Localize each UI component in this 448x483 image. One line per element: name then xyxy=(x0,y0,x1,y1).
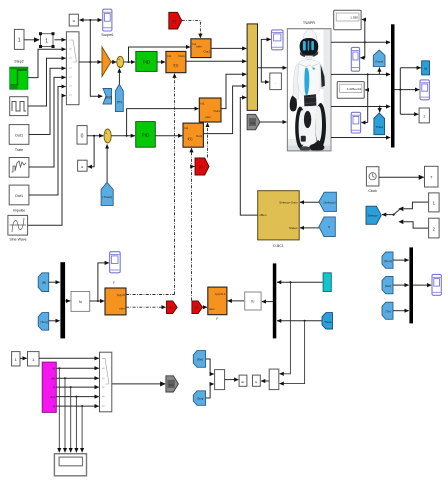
wire sum1 to PID1 with branch up xyxy=(124,47,191,63)
wire bar4 to scope xyxy=(413,284,431,286)
robot eyes xyxy=(303,41,306,51)
from tag Xpos (far right cluster) xyxy=(382,252,393,268)
mux bar 2 (black) xyxy=(273,263,277,338)
svg-text:f(1): f(1) xyxy=(188,137,193,141)
svg-text:Torq: Torq xyxy=(168,383,174,387)
wire PID2 to subsystem2a xyxy=(155,135,182,137)
svg-text:Out1: Out1 xyxy=(196,134,203,138)
from tag X (red) xyxy=(192,301,203,314)
wire subsystem1a to yellow mux input2 xyxy=(186,60,246,62)
wire magenta out1 to selector with drop xyxy=(56,367,98,452)
robot visor head xyxy=(300,38,319,56)
robot chest blade (blue) xyxy=(304,68,309,96)
svg-text:+: + xyxy=(105,132,107,136)
wire Theta to bar4 xyxy=(393,310,409,312)
svg-text:P: P xyxy=(53,386,55,390)
svg-text:Theta: Theta xyxy=(324,320,332,324)
constant block 1 xyxy=(14,29,24,49)
mux bar 4 (black) xyxy=(409,247,413,323)
svg-text:[Selector]: [Selector] xyxy=(324,200,336,204)
wire Xpos to bar4 xyxy=(393,259,409,261)
wire gray Torque to robot input2 xyxy=(260,121,287,123)
dashdot long vertical to subsystem1a bottom xyxy=(174,74,176,295)
manual switch xyxy=(393,207,404,225)
wire gain to sum1 xyxy=(111,61,116,63)
svg-text:Out1: Out1 xyxy=(178,54,185,58)
wire bottom 1a to 1b xyxy=(20,357,27,359)
svg-text:[Ref]: [Ref] xyxy=(197,358,203,362)
fcn block 1 xyxy=(71,292,90,312)
svg-text:-: - xyxy=(106,139,107,143)
subsystem block f(1) row1 xyxy=(166,51,186,72)
from tag Torque (gray, into robot) xyxy=(247,114,260,130)
wire builder to mux input5 xyxy=(29,77,66,167)
sum junction 1 xyxy=(117,56,124,68)
robot helmet xyxy=(303,29,318,43)
wire constant 2 to switch contact b xyxy=(404,222,429,228)
from tag Theta xyxy=(101,182,113,205)
robot rear tire (dark arc) xyxy=(315,103,326,148)
wire robot output2 to right demux xyxy=(331,73,390,122)
from tag Theta (far right cluster) xyxy=(382,302,393,319)
dashdot wire subsystem F left top output xyxy=(126,294,175,296)
svg-text:f(u)=0: f(u)=0 xyxy=(117,293,125,297)
svg-text:[Torq]: [Torq] xyxy=(197,397,204,401)
display dot block xyxy=(270,73,282,90)
constant block switch-1 xyxy=(429,193,440,212)
goto tag Ref xyxy=(103,89,112,105)
svg-text:Out1: Out1 xyxy=(203,50,210,54)
gain triangle block xyxy=(102,47,111,77)
yellow mux bar (5 inputs) xyxy=(247,24,257,111)
svg-text:-: - xyxy=(119,64,120,68)
unit delay block 1/z xyxy=(69,14,78,26)
svg-text:Selector: Selector xyxy=(368,214,378,218)
svg-text:1: 1 xyxy=(18,38,21,44)
wire sum2 to PID2 with branch up to subsystem2b xyxy=(111,109,198,137)
robot right arm (dark) xyxy=(319,63,325,90)
svg-text:[Y]: [Y] xyxy=(169,306,173,310)
wire Theta to sum2 bottom xyxy=(106,145,108,183)
svg-text:F: F xyxy=(216,317,218,321)
svg-text:[Ref]: [Ref] xyxy=(105,95,112,99)
goto tag Selector (blue) xyxy=(366,206,381,224)
wire branch to 1/z and Scope6 xyxy=(80,19,102,63)
svg-text:In1: In1 xyxy=(200,102,205,106)
cyan constant block xyxy=(323,273,331,292)
robot shin patch xyxy=(301,136,306,142)
wire subsystem1b to yellow mux input1 xyxy=(211,47,246,49)
constant block 0 xyxy=(77,126,87,145)
svg-text:u: u xyxy=(81,165,83,169)
wire subsystem2b to yellow mux input3 xyxy=(221,74,246,108)
robot shoulder seams xyxy=(299,64,318,67)
PID controller 2 xyxy=(136,122,156,148)
wire robot output3 to right demux xyxy=(331,106,390,113)
goto tag X1 (red) xyxy=(169,12,182,29)
clock block xyxy=(366,167,379,193)
wire Step2 to mux input2 xyxy=(28,49,66,77)
wire Xpos stub to wire2 xyxy=(378,68,380,75)
svg-text:1: 1 xyxy=(45,39,48,45)
mux bar 1 (black) xyxy=(60,262,65,338)
wire Torq to mux bar1 xyxy=(49,320,60,322)
wire PID1 to subsystem xyxy=(157,61,165,63)
from tag N xyxy=(319,217,335,237)
robot subsystem TWIPR xyxy=(287,21,331,151)
from tag Ref (far right cluster) xyxy=(382,276,393,293)
svg-text:In1: In1 xyxy=(184,126,189,130)
svg-text:[X]: [X] xyxy=(199,165,203,169)
right demux bar xyxy=(391,24,395,147)
svg-text:Impulse: Impulse xyxy=(13,209,26,213)
wire clock to T block xyxy=(379,176,424,178)
constant block bottom 1b xyxy=(28,352,40,366)
svg-text:+: + xyxy=(118,58,120,62)
svg-text:Torq: Torq xyxy=(250,121,256,125)
scope Scope5 xyxy=(272,30,284,50)
wire X to subsystem F right xyxy=(203,306,208,308)
svg-text:[Torq]: [Torq] xyxy=(41,320,48,324)
mux block bottom-a xyxy=(215,370,225,390)
wire 0 to sum2 with branch to memory xyxy=(87,135,103,167)
svg-text:dLH: dLH xyxy=(50,395,55,399)
wire magenta out5 to selector with drop xyxy=(56,405,98,452)
scope viewer box bottom xyxy=(54,454,86,476)
mux block bottom-b xyxy=(269,369,279,390)
svg-text:States: States xyxy=(289,226,298,230)
wire bar2 to fcn2 xyxy=(262,301,273,303)
outport block right xyxy=(419,108,429,123)
goto tag N right (blue) xyxy=(422,61,430,75)
svg-text:Er: Er xyxy=(242,380,245,384)
robot left arm xyxy=(293,63,299,99)
from tag M (middle band) xyxy=(38,273,49,292)
svg-text:[X]: [X] xyxy=(172,19,176,23)
robot knee shadow xyxy=(304,111,311,128)
svg-text:E: E xyxy=(255,380,257,384)
svg-text:TWIPR: TWIPR xyxy=(303,21,315,25)
wire gain1 to mux input1 xyxy=(55,39,66,41)
outport block T xyxy=(425,166,439,187)
svg-text:N: N xyxy=(328,225,330,229)
svg-text:0: 0 xyxy=(81,134,84,140)
pulse generator xyxy=(10,97,28,116)
scope block Err xyxy=(239,375,247,386)
wire D-BC1 uBen output up to yellow mux input5 xyxy=(240,98,257,216)
robot front tire (dark arc) xyxy=(295,107,305,149)
wire constant1 to gain block xyxy=(24,39,39,41)
goto tag Y (red) xyxy=(167,301,178,314)
wire fcn1 to subsystem F1 with branch to scope xyxy=(90,263,109,302)
scope right 3 xyxy=(420,80,429,100)
wire manual switch to Selector xyxy=(382,214,394,216)
demux block magenta xyxy=(42,362,56,412)
robot left hand (black) xyxy=(290,96,297,112)
svg-text:[Xpos]: [Xpos] xyxy=(384,259,392,263)
display block 2 xyxy=(337,82,364,99)
svg-text:f(1): f(1) xyxy=(174,64,179,68)
wire switch output to goto Torque gray xyxy=(112,383,165,385)
subsystem block f(1) row2 xyxy=(183,123,203,147)
sine wave source xyxy=(8,215,28,241)
wire magenta out4 to selector with drop xyxy=(56,396,98,453)
wire Ref to mux bottom-a xyxy=(206,359,214,374)
outport block Trate xyxy=(9,125,29,152)
wire robot output4 to right demux xyxy=(331,137,390,139)
svg-text:uBen: uBen xyxy=(259,213,266,217)
robot wheel bottom xyxy=(309,144,324,152)
svg-text:Out1: Out1 xyxy=(15,134,23,138)
subsystem F right (orange) xyxy=(208,287,227,321)
svg-text:elev: elev xyxy=(209,307,215,311)
wire Impulse to mux input6 xyxy=(29,87,66,196)
svg-text:.: . xyxy=(275,81,276,85)
svg-text:1.388: 1.388 xyxy=(350,16,358,20)
svg-text:F: F xyxy=(113,281,115,285)
svg-text:[Th]: [Th] xyxy=(386,310,391,314)
robot waist band xyxy=(304,94,316,107)
wire bar1 to fcn1 xyxy=(65,300,70,302)
from tag Theta1 (tall) xyxy=(115,84,123,111)
wire Theta1 to sum1 bottom xyxy=(118,69,120,85)
subsystem block elev row1 xyxy=(191,39,211,58)
svg-text:PID: PID xyxy=(142,133,150,138)
PID controller 1 xyxy=(136,51,157,71)
wire cyan block to bar2 with drop branch xyxy=(277,281,323,374)
svg-text:Step2: Step2 xyxy=(14,60,23,64)
svg-text:Selector-Gain: Selector-Gain xyxy=(279,201,298,205)
from tag Theta (middle right) xyxy=(322,313,333,329)
svg-text:[Theta]: [Theta] xyxy=(102,195,112,199)
fcn block 2 xyxy=(245,292,261,310)
wire mux bottom-b to E block xyxy=(261,380,269,382)
svg-text:Trate: Trate xyxy=(15,148,23,152)
svg-text:1: 1 xyxy=(423,114,425,118)
svg-text:elev: elev xyxy=(205,115,211,119)
wire pulse to mux input3 xyxy=(28,58,66,106)
signal builder block xyxy=(9,158,29,178)
mux selector block (7 inputs) xyxy=(66,32,79,105)
scope F (middle band) xyxy=(110,252,121,285)
from tag Selector-G xyxy=(319,192,337,211)
scope block E xyxy=(253,375,261,386)
svg-text:[X]: [X] xyxy=(195,306,199,310)
scope right 2 xyxy=(351,112,360,133)
dashdot wire X1 to subsystem1b top xyxy=(182,21,201,38)
wire blue tag to bar2 with drop branch xyxy=(277,320,322,384)
display block 1 xyxy=(334,10,361,30)
svg-text:Theta: Theta xyxy=(376,125,384,129)
svg-text:PID: PID xyxy=(143,60,151,65)
dashdot long vertical to subsystem2a bottom xyxy=(192,148,195,300)
robot torso xyxy=(298,60,321,98)
constant block bottom 1a xyxy=(12,352,20,366)
svg-text:dW: dW xyxy=(51,377,55,381)
multiport switch block bottom xyxy=(100,352,112,412)
wire branch down to goto Ref xyxy=(90,62,102,96)
sum junction 2 xyxy=(104,129,111,143)
robot lower fairing (white) xyxy=(295,106,323,150)
wire Trate to mux input4 xyxy=(29,68,66,134)
wire mux bottom-a to Err block xyxy=(225,379,239,381)
svg-text:elev: elev xyxy=(119,307,125,311)
svg-text:[Xpos]: [Xpos] xyxy=(375,60,383,64)
scope far right xyxy=(432,274,441,295)
goto tag Xpos xyxy=(373,50,385,66)
wire magenta out3 to selector with drop xyxy=(56,386,98,452)
svg-text:[Th]: [Th] xyxy=(117,100,122,104)
wire fcn2 to subsystem F right xyxy=(228,300,244,302)
svg-text:[M]: [M] xyxy=(42,281,46,285)
wire constant 1 to switch contact a xyxy=(404,202,429,209)
svg-text:Clock: Clock xyxy=(368,189,377,193)
goto tag Torque (gray) xyxy=(166,376,179,392)
wire Selector-G to D-BC1 xyxy=(300,201,319,203)
wire yellow mux output with branches to scope5, dot block and robot xyxy=(258,39,287,82)
svg-text:elev: elev xyxy=(196,45,202,49)
subsystem block elev row2 xyxy=(199,98,221,122)
svg-text:f(u)=0.1: f(u)=0.1 xyxy=(215,292,226,296)
svg-text:Sine Wave: Sine Wave xyxy=(9,238,26,242)
wire subsystem2a to yellow mux input4 xyxy=(203,86,246,134)
subsystem D-BC1 (yellow) xyxy=(258,191,300,248)
from tag Ref (bottom) xyxy=(193,351,205,368)
svg-text:Out1: Out1 xyxy=(15,194,23,198)
wire Torque to mux bottom-a xyxy=(206,384,214,398)
step source Step2 xyxy=(10,60,28,90)
wire bottom 1b to selector block input1 xyxy=(39,357,99,359)
robot chest logo xyxy=(312,67,315,70)
wire Ref to bar4 xyxy=(393,284,409,286)
svg-text:In1: In1 xyxy=(167,54,172,58)
scope right 1 xyxy=(351,47,359,71)
wire M to mux bar1 xyxy=(49,281,60,283)
svg-text:Out1: Out1 xyxy=(213,109,220,113)
svg-text:Scope6: Scope6 xyxy=(101,33,113,37)
goto tag X2 (red) xyxy=(195,158,209,175)
dashdot wire X2 top to subsystem2b bottom xyxy=(207,123,209,158)
wire N to D-BC1 xyxy=(300,227,319,229)
wire sine to mux input7 xyxy=(28,96,66,226)
memory block small xyxy=(78,160,88,171)
robot neck xyxy=(305,56,313,61)
constant block switch-2 xyxy=(429,218,440,238)
gain block 1 (selected, with handles) xyxy=(39,32,55,48)
scope Scope6 xyxy=(101,9,113,37)
subsystem F left (orange) xyxy=(105,288,126,315)
from tag Torq (middle band) xyxy=(38,313,49,331)
wire mux output to gain xyxy=(79,61,102,63)
svg-text:u: u xyxy=(73,18,75,23)
dashdot wire subsystem F left to goto Y xyxy=(126,306,166,308)
outport block Impulse xyxy=(9,185,29,212)
from tag Torque (bottom blue) xyxy=(193,391,205,406)
svg-text:[Ref]: [Ref] xyxy=(385,284,391,288)
svg-text:fu: fu xyxy=(79,300,82,304)
svg-text:D-BC1: D-BC1 xyxy=(273,244,283,248)
wire right demux output with 3 branches xyxy=(395,68,421,114)
wire robot output1 to right demux xyxy=(331,20,390,58)
wire magenta out2 to selector with drop xyxy=(56,377,98,452)
svg-text:R: R xyxy=(53,405,55,409)
svg-text:4.335e+04: 4.335e+04 xyxy=(347,87,362,91)
goto tag Theta right xyxy=(374,113,385,135)
svg-text:fu: fu xyxy=(251,300,254,304)
